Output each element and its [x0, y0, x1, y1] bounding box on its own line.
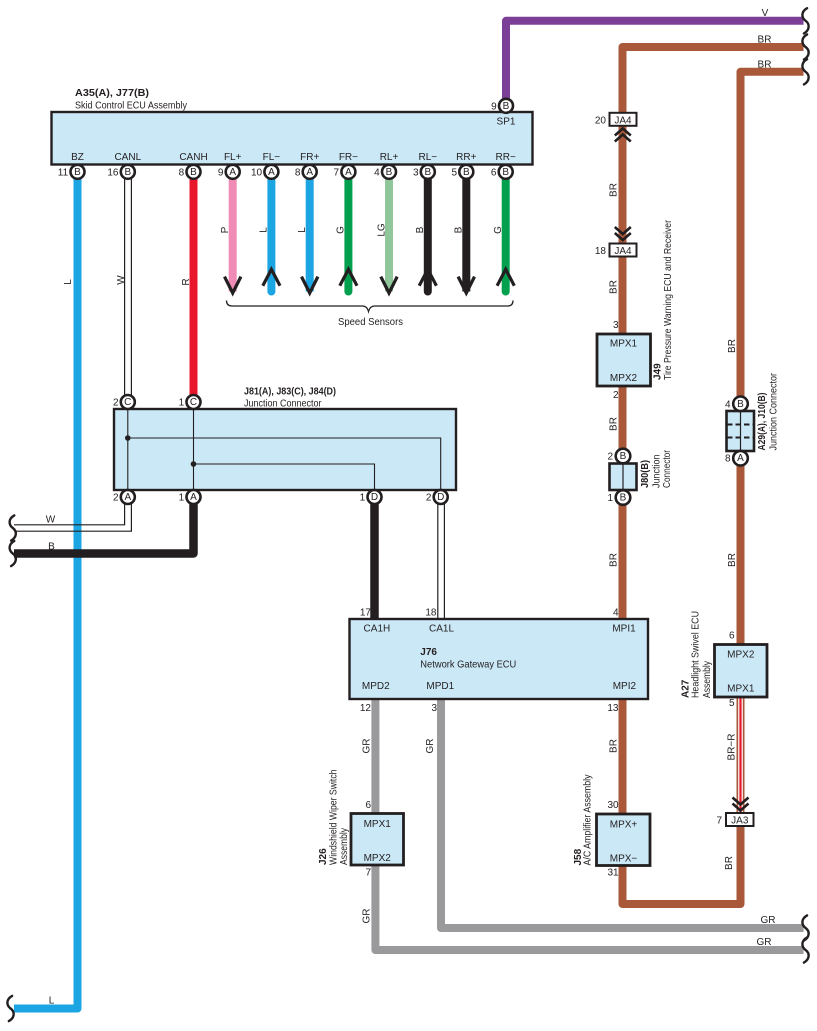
svg-text:BR−R: BR−R [726, 734, 737, 761]
junction connector A29(A),J10(B) box [727, 411, 755, 451]
TEXT: J76 pin numbers [360, 608, 619, 715]
arrow up FL- [263, 269, 280, 286]
arrow down RL+ [381, 277, 397, 293]
svg-text:B: B [620, 493, 627, 504]
svg-text:2: 2 [607, 452, 613, 463]
break left edge L wire [7, 996, 13, 1021]
svg-text:2: 2 [613, 390, 619, 401]
break right edge BR wire 2 [802, 59, 808, 84]
wire GR (gray) MPD1 pin 3 down right to edge [441, 699, 804, 928]
svg-text:B: B [620, 451, 627, 462]
TEXT: junction pin numbers [113, 398, 731, 505]
svg-text:3: 3 [613, 320, 619, 331]
svg-text:CA1L: CA1L [429, 624, 454, 635]
pin 16(B) CANL [121, 165, 135, 179]
svg-text:7: 7 [365, 868, 371, 879]
pin 4(B) RL+ [382, 165, 396, 179]
svg-text:JA4: JA4 [614, 246, 632, 257]
svg-text:BR: BR [609, 183, 620, 197]
svg-text:CA1H: CA1H [364, 624, 391, 635]
svg-text:RR+: RR+ [456, 152, 476, 163]
junction node dot 2 [125, 435, 131, 441]
svg-text:A29(A), J10(B): A29(A), J10(B) [757, 393, 768, 451]
connector JA4 pin 18 box [610, 244, 637, 257]
svg-text:G: G [336, 226, 347, 234]
svg-text:FL+: FL+ [224, 152, 242, 163]
svg-text:SP1: SP1 [497, 117, 516, 128]
svg-text:MPX1: MPX1 [727, 684, 755, 695]
pin 9(B) SP1 [499, 99, 513, 113]
pin 2(D) junction [434, 490, 448, 504]
pin 8(A) FR+ [303, 165, 317, 179]
pin 9(A) FL+ [226, 165, 240, 179]
svg-text:B: B [124, 167, 131, 178]
svg-text:6: 6 [491, 168, 497, 179]
svg-text:J49: J49 [653, 363, 664, 380]
wire BR (brown) MPI2 pin 13 to J58 MPX+ pin 30 [619, 699, 627, 814]
pin 7(A) FR- [341, 165, 355, 179]
pin 8(B) CANH [187, 165, 201, 179]
svg-text:G: G [493, 226, 504, 234]
pin 10(A) FL- [264, 165, 278, 179]
svg-text:13: 13 [607, 703, 619, 714]
arrow up FR- [340, 269, 357, 286]
svg-text:RL−: RL− [418, 152, 437, 163]
svg-text:A35(A), J77(B): A35(A), J77(B) [75, 88, 149, 99]
break left edge W wire [10, 515, 16, 540]
svg-text:18: 18 [595, 246, 607, 257]
svg-text:Tire Pressure Warning ECU and: Tire Pressure Warning ECU and Receiver [663, 219, 674, 380]
pin 11(B) BZ [71, 165, 85, 179]
svg-text:J76: J76 [420, 647, 437, 658]
svg-text:B: B [48, 542, 55, 553]
wire W (white pair) from 2(A) down-left to edge [14, 504, 125, 525]
ECU A27 Headlight Swivel box [715, 645, 768, 698]
ECU J58 A/C Amplifier box [597, 814, 651, 866]
svg-text:3: 3 [431, 703, 437, 714]
wire BR (brown) from right edge down through A29 to A27 MPX2 pin 6 [741, 72, 804, 397]
svg-text:4: 4 [613, 608, 619, 619]
wire L (blue) FL- sensor [267, 179, 275, 292]
svg-text:V: V [762, 8, 769, 19]
svg-text:9: 9 [218, 168, 224, 179]
svg-text:FR+: FR+ [300, 152, 319, 163]
arrow down FL+ [225, 277, 241, 293]
break right edge V wire [802, 8, 808, 33]
svg-text:Junction: Junction [652, 455, 663, 489]
svg-text:B: B [386, 167, 393, 178]
wire GR (gray) J26 MPX2 pin 7 down right to edge [375, 865, 803, 950]
svg-text:P: P [220, 226, 231, 233]
svg-text:B: B [502, 167, 509, 178]
svg-text:30: 30 [607, 800, 619, 811]
svg-text:GR: GR [761, 915, 776, 926]
J80 internal divider [622, 464, 624, 491]
svg-text:MPX2: MPX2 [727, 650, 755, 661]
arrow down RR+ [458, 277, 474, 293]
svg-text:20: 20 [595, 115, 607, 126]
svg-text:8: 8 [179, 168, 185, 179]
svg-text:CANH: CANH [179, 152, 207, 163]
svg-text:4: 4 [374, 168, 380, 179]
brace Speed Sensors [227, 301, 514, 312]
svg-text:BR: BR [609, 739, 620, 753]
arrow down FR+ [302, 277, 318, 293]
JA4 up chevrons [615, 129, 631, 142]
TEXT: small box pin names [364, 115, 755, 864]
svg-text:MPX1: MPX1 [364, 819, 392, 830]
wire W (white pair) 2(D) to CA1L pin 18 [437, 504, 439, 619]
svg-text:B: B [737, 399, 744, 410]
ECU J26 Windshield Wiper box [351, 814, 404, 866]
svg-text:7: 7 [716, 816, 722, 827]
TEXT: component headers [75, 88, 516, 671]
svg-text:MPD1: MPD1 [426, 681, 454, 692]
PIN CIRCLES [71, 99, 748, 505]
wire B (black) 1(D) to CA1H pin 17 [370, 504, 379, 619]
svg-text:2: 2 [113, 398, 119, 409]
junction node dot 1 [191, 461, 197, 467]
pin 1(A) junction [187, 490, 201, 504]
svg-text:L: L [297, 227, 308, 233]
SENSOR ARROWS [225, 269, 515, 293]
svg-text:Skid Control ECU Assembly: Skid Control ECU Assembly [75, 101, 187, 112]
svg-text:JA4: JA4 [614, 115, 632, 126]
svg-text:Network Gateway ECU: Network Gateway ECU [420, 660, 516, 671]
svg-text:BR: BR [609, 417, 620, 431]
svg-text:MPX+: MPX+ [610, 820, 638, 831]
svg-text:BR: BR [609, 280, 620, 294]
wire P (pink) FL+ sensor [229, 179, 237, 292]
svg-text:JA3: JA3 [731, 816, 749, 827]
svg-text:1: 1 [179, 398, 185, 409]
svg-text:D: D [437, 492, 444, 503]
wire GR (gray) MPD2 pin 12 to J26 MPX1 pin 6 [371, 699, 379, 814]
svg-text:11: 11 [58, 168, 69, 179]
A29 internal divider [740, 411, 742, 451]
svg-text:Junction Connector: Junction Connector [769, 372, 780, 450]
svg-text:GR: GR [362, 909, 373, 924]
svg-text:BR: BR [724, 856, 735, 870]
svg-text:FR−: FR− [339, 152, 358, 163]
svg-text:6: 6 [729, 631, 735, 642]
wire BR (brown) loop J58 MPX- pin 31 to JA3 [623, 826, 741, 904]
pin 8(A) A29 [733, 451, 748, 466]
pin 2(B) J80 [616, 449, 631, 464]
svg-text:BR: BR [609, 553, 620, 567]
svg-text:L: L [259, 227, 270, 233]
svg-text:Speed Sensors: Speed Sensors [338, 317, 403, 328]
svg-text:A: A [737, 453, 744, 464]
svg-text:Assembly: Assembly [702, 661, 713, 698]
svg-text:12: 12 [360, 703, 372, 714]
svg-text:A: A [190, 492, 197, 503]
svg-text:8: 8 [725, 454, 731, 465]
svg-text:4: 4 [725, 400, 731, 411]
svg-text:7: 7 [334, 168, 340, 179]
svg-text:Headlight Swivel ECU: Headlight Swivel ECU [691, 611, 702, 698]
pin 1(B) J80 [616, 490, 631, 505]
svg-text:6: 6 [365, 800, 371, 811]
TEXT: small box pin numbers [365, 115, 735, 878]
break left edge B wire [10, 541, 16, 566]
connector JA3 pin 7 box [726, 813, 754, 826]
wire L (blue) FR+ sensor [306, 179, 314, 292]
svg-text:9: 9 [491, 102, 497, 113]
svg-text:L: L [63, 279, 74, 285]
svg-text:5: 5 [729, 698, 735, 709]
svg-text:A: A [124, 492, 131, 503]
arrow up RR- [497, 269, 514, 286]
svg-text:10: 10 [251, 168, 263, 179]
svg-text:BR: BR [727, 339, 738, 353]
svg-text:CANL: CANL [114, 152, 141, 163]
svg-text:B: B [415, 226, 426, 233]
svg-text:31: 31 [607, 868, 619, 879]
svg-text:MPI1: MPI1 [612, 624, 636, 635]
wire R (red) CANH from pin 8(B) to 1(C) [190, 179, 198, 396]
pin 6(B) RR- [499, 165, 513, 179]
TEXT: rotated wire color labels [63, 183, 738, 923]
svg-text:3: 3 [413, 168, 419, 179]
svg-text:W: W [46, 515, 56, 526]
svg-text:A/C Amplifier Assembly: A/C Amplifier Assembly [583, 775, 594, 866]
svg-text:BR: BR [758, 35, 772, 46]
svg-text:J80(B): J80(B) [640, 460, 651, 488]
junction connector J80(B) box [610, 464, 637, 491]
svg-text:J81(A), J83(C), J84(D): J81(A), J83(C), J84(D) [244, 387, 336, 398]
break right edge GR wire 2 [802, 937, 808, 962]
svg-text:R: R [181, 278, 192, 285]
pin 1(D) junction [368, 490, 382, 504]
wire B (black) from 1(A) down-left to edge [14, 504, 194, 554]
svg-text:16: 16 [107, 168, 119, 179]
ECU J76 Network Gateway box [350, 619, 649, 699]
break right edge GR wire 1 [802, 915, 808, 940]
svg-text:1: 1 [179, 493, 185, 504]
svg-text:B: B [424, 167, 431, 178]
TEXT: pin circle letters [74, 101, 744, 504]
svg-text:C: C [124, 397, 131, 408]
ECU J49 Tire Pressure box [597, 334, 651, 386]
svg-text:J26: J26 [318, 848, 329, 865]
break right edge BR wire 1 [802, 34, 808, 59]
svg-text:2: 2 [426, 493, 432, 504]
svg-text:MPX2: MPX2 [610, 373, 638, 384]
svg-text:5: 5 [451, 168, 457, 179]
TEXT: skid box pin names [71, 117, 516, 164]
svg-text:MPX2: MPX2 [364, 853, 392, 864]
svg-text:LG: LG [376, 223, 387, 237]
pin 3(B) RL- [421, 165, 435, 179]
wire BR (brown) J80 1(B) to MPI1 [619, 505, 627, 620]
wire BR (brown) from right edge down through JA4s and J49/J80 to MPI1 pin 4 [623, 47, 804, 449]
A29 dashed rows [727, 425, 754, 438]
wire B (black) RL- sensor [424, 179, 432, 292]
pin 2(C) junction [121, 395, 135, 409]
svg-text:A: A [229, 167, 236, 178]
TEXT: rotated component labels [318, 219, 780, 865]
JA4 down chevrons [615, 227, 631, 240]
svg-text:FL−: FL− [263, 152, 281, 163]
svg-text:Windshield Wiper Switch: Windshield Wiper Switch [329, 770, 340, 866]
svg-text:B: B [454, 226, 465, 233]
svg-text:18: 18 [425, 608, 437, 619]
svg-text:BR: BR [758, 60, 772, 71]
svg-text:B: B [190, 167, 197, 178]
pin 4(B) A29 [733, 397, 748, 412]
wire BR-R (brown/red) A27 MPX1 pin 5 to JA3 pin 7 [737, 697, 745, 813]
svg-text:GR: GR [362, 739, 373, 754]
svg-text:BZ: BZ [71, 152, 84, 163]
wire LG (light green) RL+ sensor [385, 179, 393, 292]
TEXT: J76 inner pin names [362, 624, 637, 693]
arrow up RL- [419, 269, 436, 286]
wire B (black) RR+ sensor [462, 179, 470, 292]
wire BR (brown) A29 8(A) to A27 [737, 465, 745, 645]
svg-text:MPX−: MPX− [610, 854, 638, 865]
svg-text:1: 1 [607, 493, 613, 504]
svg-text:2: 2 [113, 493, 119, 504]
svg-text:A: A [345, 167, 352, 178]
svg-text:MPI2: MPI2 [613, 681, 637, 692]
JA3 down chevrons [733, 798, 749, 811]
wire G (green) RR- sensor [502, 179, 510, 292]
svg-text:B: B [463, 167, 470, 178]
wire W (white pair) CANL pin 16(B) to 2(C) [124, 179, 126, 396]
TEXT: skid pin numbers [58, 102, 497, 179]
wire L (blue) from BZ pin 11 down and left to edge [14, 179, 78, 1009]
svg-text:L: L [49, 996, 55, 1007]
connector JA4 pin 20 box [610, 113, 637, 126]
svg-text:8: 8 [295, 168, 301, 179]
svg-text:A: A [306, 167, 313, 178]
junction connector J81/J83/J84 box [114, 409, 456, 490]
svg-text:D: D [371, 492, 378, 503]
svg-text:RR−: RR− [496, 152, 516, 163]
wire V (violet) from SP1 pin 9 up and right to edge [506, 21, 804, 99]
svg-text:MPX1: MPX1 [610, 339, 638, 350]
svg-text:GR: GR [425, 739, 436, 754]
svg-text:B: B [503, 101, 510, 112]
svg-text:A: A [268, 167, 275, 178]
svg-text:Assembly: Assembly [339, 828, 350, 865]
pin 2(A) junction [121, 490, 135, 504]
pin 1(C) junction [187, 395, 201, 409]
svg-text:B: B [74, 167, 81, 178]
svg-text:1: 1 [360, 493, 366, 504]
svg-text:W: W [116, 275, 127, 285]
svg-text:MPD2: MPD2 [362, 681, 390, 692]
svg-text:Connector: Connector [662, 449, 673, 488]
svg-text:RL+: RL+ [380, 152, 399, 163]
junction internal bus wires [128, 409, 441, 490]
svg-text:BR: BR [727, 553, 738, 567]
pin 5(B) RR+ [459, 165, 473, 179]
ECU A35(A),J77(B) Skid Control box [52, 112, 533, 165]
svg-text:C: C [190, 397, 197, 408]
svg-text:17: 17 [360, 608, 372, 619]
svg-text:GR: GR [757, 937, 772, 948]
wire G (green) FR- sensor [344, 179, 352, 292]
svg-text:Junction Connector: Junction Connector [244, 399, 322, 410]
